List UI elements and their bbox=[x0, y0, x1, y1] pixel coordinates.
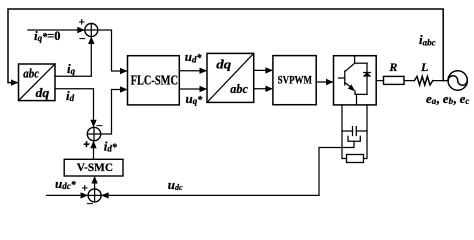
wire: inverter internal top rail bbox=[355, 62, 367, 64]
wire bbox=[433, 80, 448, 82]
svg-text:id: id bbox=[66, 88, 75, 103]
wire: iq*=0 reference input bbox=[28, 29, 84, 31]
block: abc->dq transform bbox=[19, 64, 56, 101]
resistor load (DC) bbox=[347, 155, 364, 163]
wire: uq* output bbox=[179, 88, 205, 90]
wire: id from abc/dq down to S2 bbox=[55, 89, 94, 126]
transistor IGBT bbox=[339, 63, 356, 91]
diode (freewheeling) bbox=[364, 63, 371, 94]
svg-text:iq: iq bbox=[67, 61, 76, 76]
wire: ud* output bbox=[179, 70, 205, 72]
svg-text:+: + bbox=[84, 139, 91, 151]
wire: DC link right rail bbox=[364, 105, 368, 159]
wire: u_dc* reference input bbox=[47, 194, 87, 196]
block: V-SMC controller bbox=[64, 159, 123, 176]
voltage sense plate (u-bracket) bbox=[348, 136, 360, 141]
svg-text:uq*: uq* bbox=[186, 91, 204, 106]
wire: S2 output to FLC-SMC bottom input bbox=[101, 90, 126, 135]
block: FLC-SMC controller bbox=[128, 56, 180, 105]
svg-text:SVPWM: SVPWM bbox=[278, 75, 313, 87]
inductor L bbox=[414, 60, 432, 85]
resistor R bbox=[384, 60, 405, 84]
wire: S1 output to FLC-SMC top input bbox=[98, 30, 126, 71]
block: inverter bbox=[334, 56, 377, 105]
wire: i_abc feedback (top border path) bbox=[8, 9, 443, 83]
svg-text:−: − bbox=[79, 32, 86, 46]
svg-text:V-SMC: V-SMC bbox=[77, 160, 113, 174]
wire: u_dc tap to summing junction S3 bbox=[103, 141, 354, 195]
svg-text:abc: abc bbox=[23, 66, 39, 81]
svg-text:FLC-SMC: FLC-SMC bbox=[131, 74, 178, 89]
node: summing junction S2 bbox=[83, 119, 103, 152]
block: SVPWM bbox=[273, 56, 316, 105]
node: summing junction S1 bbox=[79, 17, 98, 46]
capacitor C (DC link) bbox=[342, 127, 367, 136]
wire: S3 output up to V-SMC bbox=[94, 178, 96, 189]
svg-text:ea, eb, ec: ea, eb, ec bbox=[426, 91, 469, 106]
svg-text:ud*: ud* bbox=[185, 49, 203, 64]
wire: dq/abc to SVPWM (bottom) bbox=[254, 88, 272, 90]
svg-text:dq: dq bbox=[36, 85, 50, 100]
svg-text:dq: dq bbox=[216, 56, 232, 71]
wire: inverter AC output bbox=[376, 80, 383, 82]
wire: SVPWM to inverter bbox=[316, 81, 332, 83]
svg-text:iabc: iabc bbox=[419, 32, 436, 47]
svg-text:+: + bbox=[82, 183, 89, 195]
wire bbox=[404, 80, 414, 82]
svg-text:id*: id* bbox=[104, 139, 118, 154]
wire: inverter internal top tap bbox=[354, 56, 356, 64]
block: dq->abc transform bbox=[207, 53, 254, 102]
wire: emitter to bottom junction bbox=[355, 91, 367, 94]
svg-text:+: + bbox=[79, 17, 86, 29]
wire: inverter internal bottom tap bbox=[356, 94, 358, 105]
wire: dq/abc to SVPWM (top) bbox=[254, 69, 272, 71]
node: summing junction S3 bbox=[82, 183, 102, 211]
AC source (grid) bbox=[448, 71, 467, 90]
svg-text:udc*: udc* bbox=[55, 176, 77, 191]
svg-text:udc: udc bbox=[168, 177, 183, 192]
wire: arrowhead into abc/dq block bbox=[11, 79, 19, 85]
svg-text:abc: abc bbox=[230, 81, 248, 96]
wire: DC link left rail bbox=[342, 105, 347, 159]
wire: iq feedback from abc/dq to S1 bbox=[55, 38, 91, 76]
svg-text:−: − bbox=[96, 119, 103, 133]
svg-text:R: R bbox=[388, 60, 397, 74]
svg-text:L: L bbox=[420, 60, 428, 74]
svg-text:−: − bbox=[87, 197, 94, 209]
wire: V-SMC output up to S2 (id*) bbox=[93, 142, 95, 159]
